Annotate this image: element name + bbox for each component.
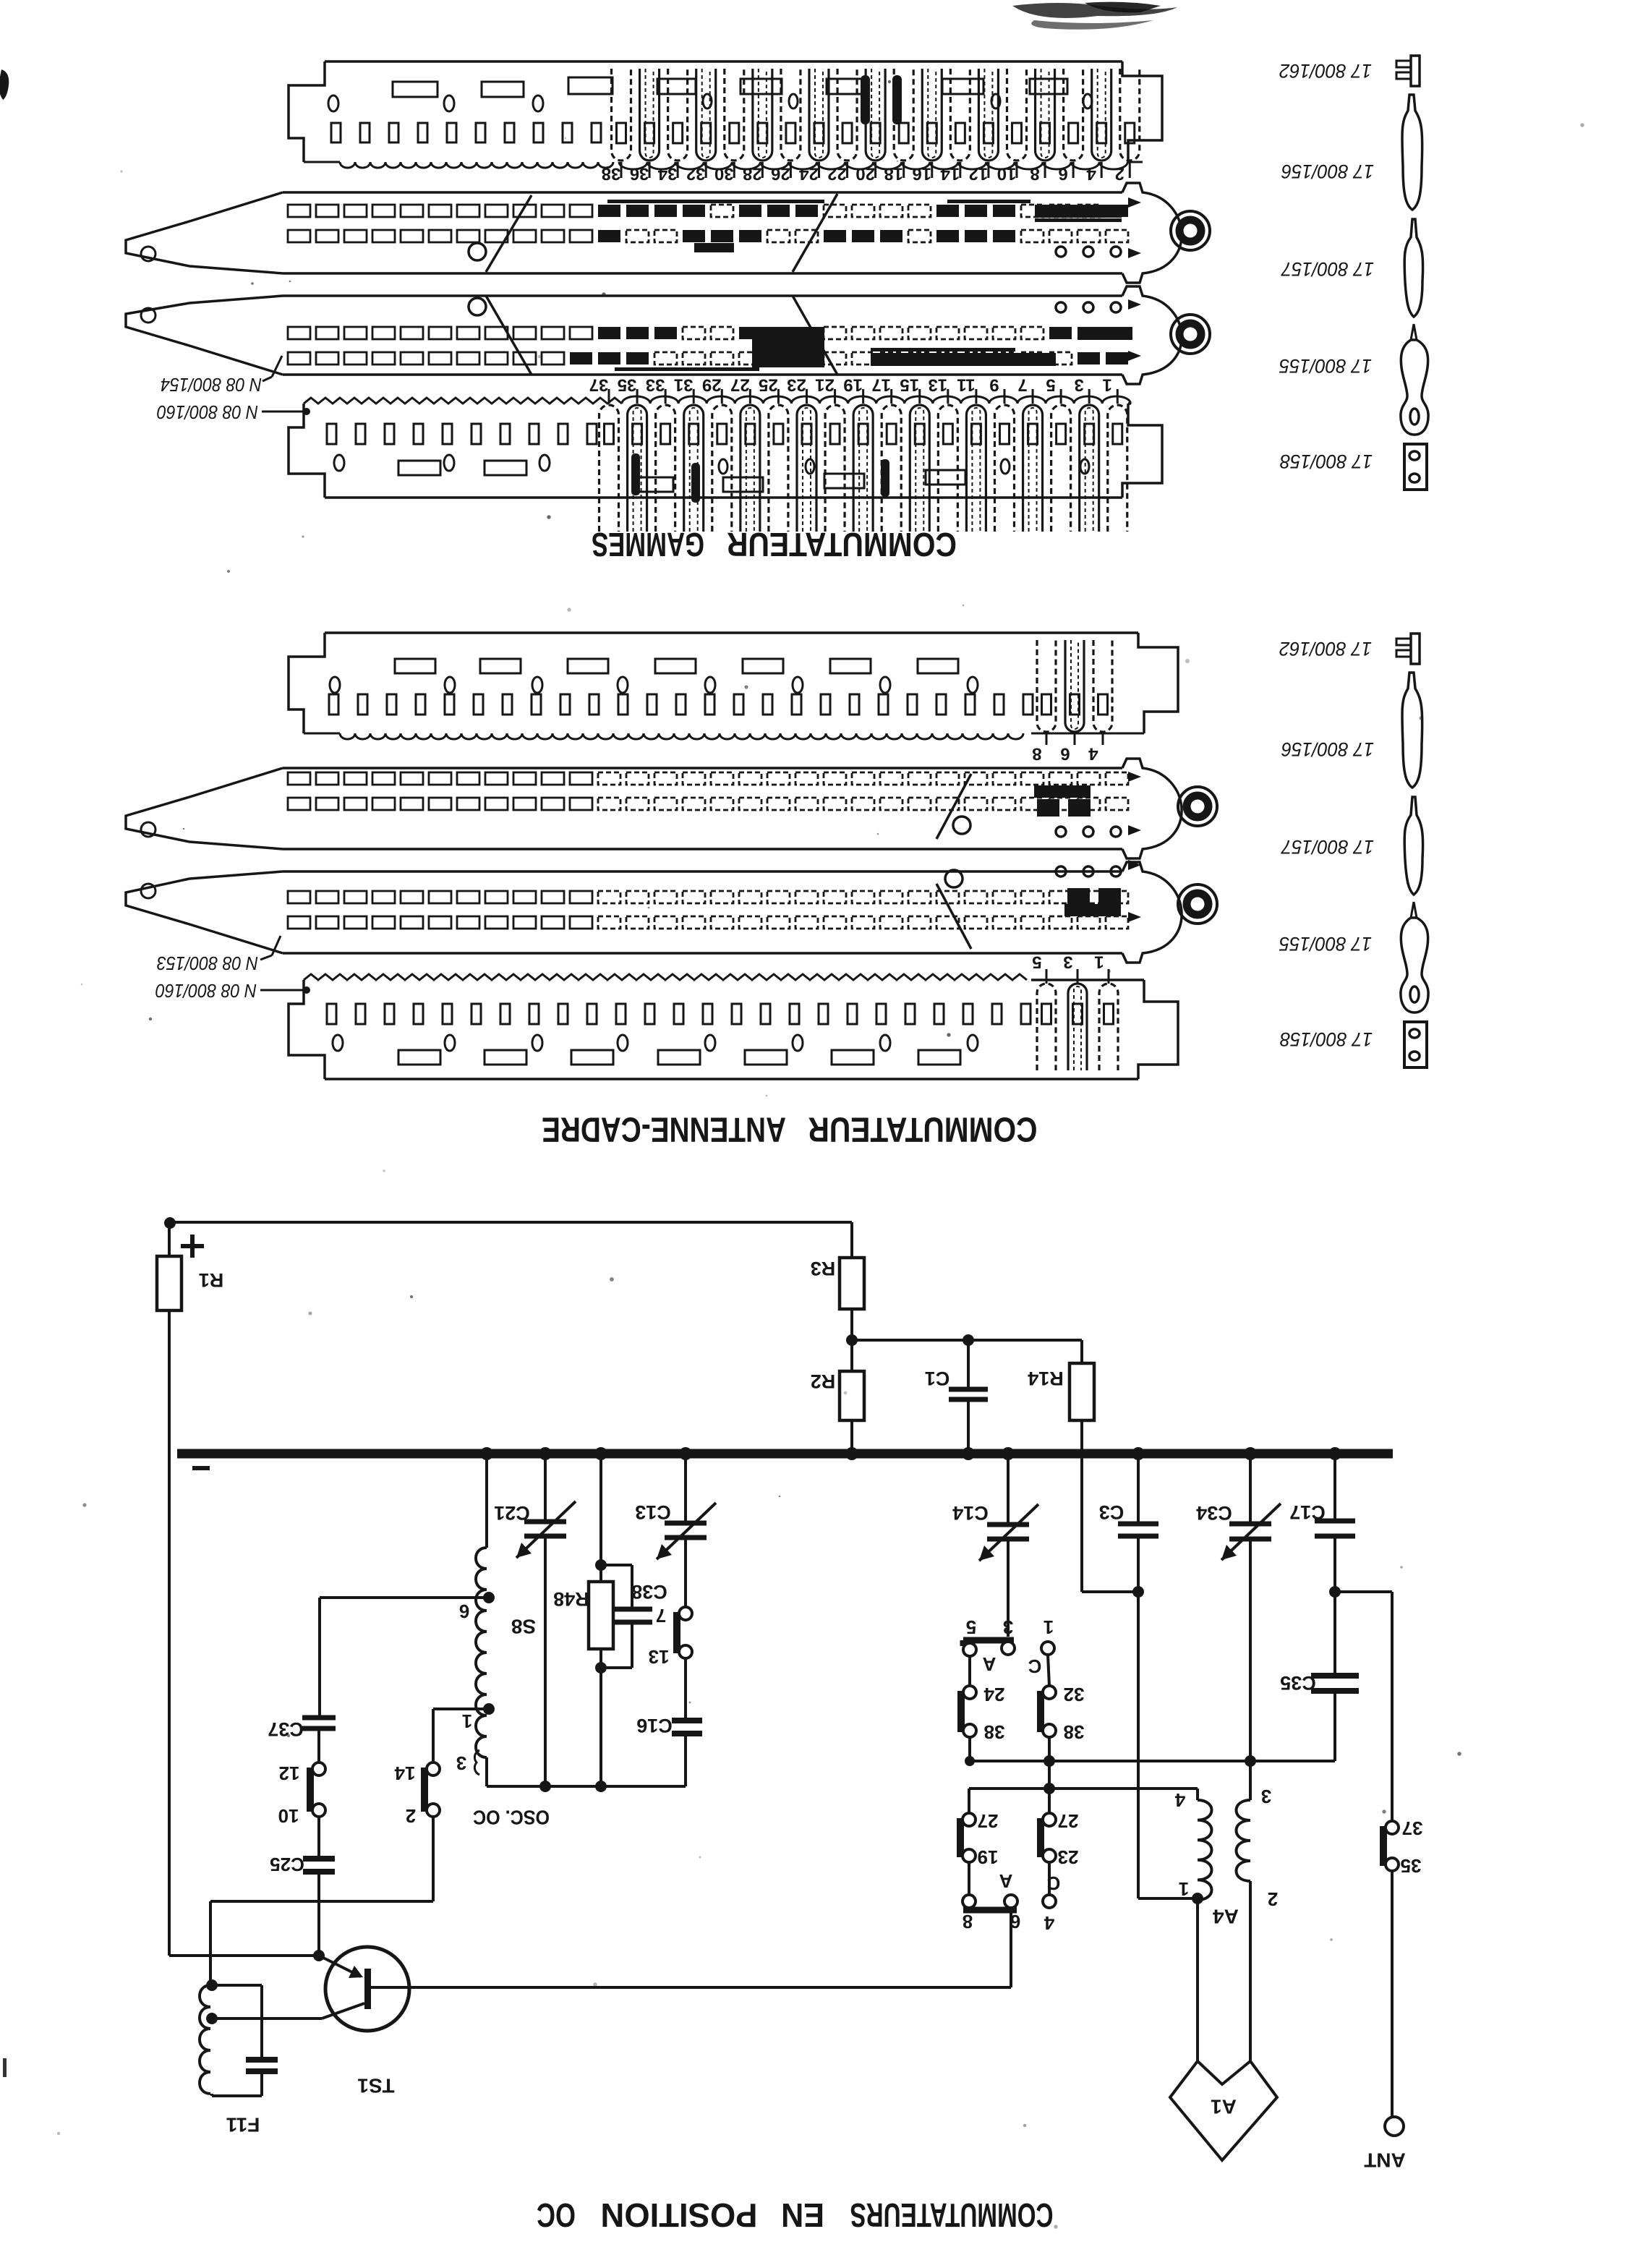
wire 38 contacts to lower rail <box>968 1737 971 1761</box>
svg-text:R1: R1 <box>199 1269 224 1291</box>
coil F11 <box>200 1985 210 2094</box>
svg-text:28: 28 <box>743 164 762 184</box>
antenne-cadre strip D (toothed insulator) <box>304 974 1027 980</box>
svg-text:C: C <box>1028 1655 1041 1677</box>
svg-text:17 800/162: 17 800/162 <box>1279 638 1372 660</box>
svg-text:26: 26 <box>771 164 790 184</box>
svg-text:37: 37 <box>589 375 609 395</box>
part 17 800/156 <box>1402 95 1422 210</box>
resistor R2 <box>840 1371 864 1420</box>
svg-text:27: 27 <box>978 1810 999 1832</box>
svg-text:C35: C35 <box>1280 1672 1316 1694</box>
resistor R14 <box>1080 1340 1083 1363</box>
wire R48 bottom <box>599 1649 602 1786</box>
antenne-cadre strip A (toothed insulator) <box>325 631 1138 634</box>
wire R2 to ground bus <box>850 1420 853 1454</box>
svg-text:37: 37 <box>1402 1817 1423 1839</box>
svg-text:2: 2 <box>1268 1888 1278 1910</box>
svg-text:3: 3 <box>1063 952 1072 972</box>
gammes strip A dark contact pair <box>861 75 870 124</box>
svg-text:4: 4 <box>1044 1912 1054 1934</box>
svg-text:33: 33 <box>646 375 665 395</box>
svg-text:C13: C13 <box>635 1501 671 1523</box>
resistor R3 <box>840 1258 864 1309</box>
svg-text:C21: C21 <box>494 1502 530 1524</box>
capacitor C34 (variable) <box>1249 1454 1252 1522</box>
wire positive top rail <box>169 1221 852 1224</box>
gammes strip A contact fingers with pin numbers 2..38 <box>612 69 631 161</box>
wire C37 to switch 12 <box>317 1728 320 1762</box>
svg-text:38: 38 <box>984 1721 1005 1743</box>
part 17 800/157 <box>1404 219 1422 317</box>
junction C3/R14 <box>1132 1586 1144 1598</box>
capacitor across F11 <box>212 1984 262 1987</box>
switch contact 7-13 <box>673 1612 680 1653</box>
wire R48 branch top <box>599 1454 602 1582</box>
svg-text:3: 3 <box>1003 1616 1013 1638</box>
frame antenna A1 <box>1170 2061 1277 2160</box>
svg-text:14: 14 <box>394 1762 415 1784</box>
svg-text:12: 12 <box>279 1762 300 1784</box>
svg-text:8: 8 <box>1030 164 1039 184</box>
svg-text:14: 14 <box>940 164 960 184</box>
part 17 800/158 <box>1404 1022 1427 1067</box>
part 17 800/157 <box>1404 797 1422 895</box>
svg-text:35: 35 <box>1401 1855 1422 1877</box>
wire C25 down crossing junction <box>317 1872 320 1956</box>
switch contact 12-10 <box>307 1768 314 1812</box>
node - (battery negative) <box>192 1466 210 1470</box>
svg-text:21: 21 <box>815 375 835 395</box>
wire lower rail 1 (to C35/C17 branch) <box>970 1760 1335 1762</box>
switch contact 27-23 bridged <box>1048 1789 1051 1813</box>
junction bottom rail <box>539 1781 551 1792</box>
gammes strip B (contact plate, blackened pattern) <box>126 192 283 273</box>
resistor R1 <box>157 1256 182 1310</box>
svg-text:COMMUTATEURS: COMMUTATEURS <box>850 2196 1054 2234</box>
antenne-cadre strip D contact fingers 1,3,5 <box>1037 984 1056 1070</box>
junction R3/R2 <box>846 1334 858 1346</box>
svg-text:35: 35 <box>618 375 637 395</box>
wire 5 to 24 <box>968 1656 971 1686</box>
part 17 800/162 <box>1411 634 1420 664</box>
svg-text:25: 25 <box>759 375 778 395</box>
svg-text:R3: R3 <box>811 1258 836 1279</box>
svg-text:13: 13 <box>649 1646 670 1668</box>
svg-text:11: 11 <box>957 375 975 395</box>
svg-text:31: 31 <box>674 375 694 395</box>
svg-text:32: 32 <box>686 164 706 184</box>
svg-text:C14: C14 <box>952 1502 989 1524</box>
coil S8 <box>476 1548 487 1757</box>
svg-text:4: 4 <box>1174 1789 1185 1811</box>
svg-text:C16: C16 <box>636 1715 673 1736</box>
scan smudge top <box>1012 2 1177 30</box>
svg-text:2: 2 <box>406 1805 416 1827</box>
svg-text:19: 19 <box>843 375 863 395</box>
svg-text:4: 4 <box>1086 164 1096 184</box>
svg-text:5: 5 <box>1046 375 1055 395</box>
svg-text:1: 1 <box>1103 375 1112 395</box>
svg-text:17 800/156: 17 800/156 <box>1281 738 1374 760</box>
svg-text:3: 3 <box>456 1752 466 1774</box>
svg-text:R48: R48 <box>553 1588 589 1610</box>
svg-text:ANT: ANT <box>1364 2149 1406 2172</box>
svg-text:A: A <box>982 1653 996 1675</box>
svg-text:EN: EN <box>781 2196 824 2234</box>
capacitor C14 (variable) <box>1007 1454 1010 1523</box>
switch contact 32-38 bridged <box>1037 1691 1044 1732</box>
wire R14 down to C3 node (crosses bus) <box>1080 1420 1083 1592</box>
wire 35 to ANT terminal <box>1391 1871 1394 2116</box>
scan mark left edge <box>0 69 9 100</box>
svg-text:34: 34 <box>657 164 677 184</box>
transistor TS1 <box>325 1947 409 2031</box>
wire collector TS1 to contact 6 <box>371 1986 1011 1989</box>
svg-text:F11: F11 <box>226 2114 260 2136</box>
svg-text:C38: C38 <box>631 1581 667 1603</box>
svg-text:27: 27 <box>730 375 750 395</box>
wire mid rail to C1 and R14 <box>852 1339 1082 1342</box>
svg-text:1: 1 <box>1094 952 1104 972</box>
svg-text:4: 4 <box>1088 744 1098 764</box>
svg-text:18: 18 <box>884 164 903 184</box>
capacitor C16 <box>672 1718 702 1723</box>
svg-text:ANTENNE-CADRE: ANTENNE-CADRE <box>542 1110 786 1148</box>
switch contact 24-38 bridged <box>957 1691 965 1732</box>
transformer A4 primary 4-1 <box>1196 1789 1199 1800</box>
svg-text:C3: C3 <box>1099 1501 1125 1523</box>
junction R48 top <box>595 1559 607 1571</box>
svg-text:1: 1 <box>462 1710 472 1732</box>
svg-text:16: 16 <box>912 164 931 184</box>
svg-text:COMMUTATEUR: COMMUTATEUR <box>727 526 957 563</box>
node + (battery positive) <box>181 1244 204 1248</box>
capacitor C21 (variable) <box>544 1454 547 1520</box>
junction S8 tap 6 <box>483 1592 495 1603</box>
svg-text:3: 3 <box>1261 1786 1271 1807</box>
svg-text:5: 5 <box>966 1616 976 1638</box>
svg-text:C25: C25 <box>270 1854 304 1875</box>
capacitor C3 <box>1137 1454 1140 1522</box>
svg-text:29: 29 <box>702 375 722 395</box>
capacitor C38 (parallel R48) <box>601 1564 632 1566</box>
svg-text:17 800/155: 17 800/155 <box>1279 355 1372 377</box>
resistor R48 <box>589 1582 613 1649</box>
wire S8 top <box>485 1454 488 1548</box>
svg-text:20: 20 <box>855 164 875 184</box>
junction emitter node <box>313 1950 325 1961</box>
svg-text:9: 9 <box>989 375 999 395</box>
wire lower rail 2 (to A4 primary) <box>969 1787 1198 1790</box>
wire 10 to C25 <box>317 1817 320 1857</box>
wire S8 bottom to oscillator bottom rail <box>485 1757 488 1786</box>
svg-text:8: 8 <box>963 1911 973 1932</box>
svg-text:1: 1 <box>1044 1616 1054 1638</box>
wire left rail to emitter node <box>169 1954 319 1957</box>
part 17 800/156 <box>1402 673 1422 788</box>
gammes strip C (contact plate, blackened pattern) <box>126 296 283 375</box>
junction F11 base tap <box>206 2013 218 2024</box>
svg-text:A: A <box>999 1870 1012 1892</box>
svg-text:C1: C1 <box>925 1368 950 1389</box>
svg-text:5: 5 <box>1032 952 1041 972</box>
gammes strip A (toothed insulator, contacts 2-38) <box>325 60 1122 63</box>
svg-text:N 08 800/153: N 08 800/153 <box>157 952 258 974</box>
antenne-cadre strip B (contact plate) <box>126 768 283 849</box>
svg-text:POSITION: POSITION <box>601 2196 758 2234</box>
svg-text:17 800/158: 17 800/158 <box>1280 1028 1373 1050</box>
wire 1 to 32 <box>1048 1655 1049 1686</box>
svg-text:19: 19 <box>978 1846 999 1868</box>
svg-text:7: 7 <box>656 1605 666 1627</box>
capacitor C37 <box>302 1715 336 1721</box>
svg-text:A1: A1 <box>1211 2096 1237 2118</box>
svg-text:17 800/162: 17 800/162 <box>1279 60 1372 82</box>
svg-text:GAMMES: GAMMES <box>592 526 704 563</box>
wire tap6 to C37 <box>320 1596 489 1599</box>
svg-text:6: 6 <box>459 1600 469 1622</box>
part 17 800/162 <box>1411 56 1420 86</box>
svg-text:17 800/156: 17 800/156 <box>1281 161 1374 182</box>
svg-text:17 800/157: 17 800/157 <box>1281 836 1374 858</box>
wire 13 to C16 <box>684 1658 687 1718</box>
switch contact 5-3 bridged <box>963 1637 1014 1644</box>
svg-text:10: 10 <box>278 1805 299 1827</box>
svg-text:7: 7 <box>1017 375 1027 395</box>
junction S8 tap 1 <box>483 1703 495 1715</box>
bus junctions <box>480 1447 493 1460</box>
svg-text:24: 24 <box>983 1684 1004 1705</box>
svg-text:17 800/157: 17 800/157 <box>1281 258 1374 280</box>
wire tap1 to switch 14 <box>433 1708 489 1710</box>
part 17 800/155 <box>1411 902 1414 918</box>
capacitor C13 (variable) <box>684 1454 687 1522</box>
junction F11 top <box>206 1979 218 1991</box>
svg-text:A4: A4 <box>1213 1906 1239 1928</box>
svg-text:30: 30 <box>714 164 734 184</box>
svg-text:38: 38 <box>602 164 621 184</box>
svg-text:OSC. OC: OSC. OC <box>473 1807 550 1829</box>
junction top-left <box>164 1217 176 1229</box>
svg-text:36: 36 <box>630 164 649 184</box>
svg-text:23: 23 <box>787 375 806 395</box>
switch contact 14-2 <box>421 1768 428 1812</box>
scan speckles <box>538 355 542 359</box>
svg-text:17 800/155: 17 800/155 <box>1279 933 1372 955</box>
terminal ANT <box>1385 2117 1404 2136</box>
svg-text:13: 13 <box>928 375 947 395</box>
svg-text:23: 23 <box>1058 1846 1079 1868</box>
capacitor C35 <box>1333 1592 1336 1673</box>
svg-text:OC: OC <box>537 2196 576 2234</box>
svg-text:32: 32 <box>1064 1684 1085 1705</box>
svg-text:S8: S8 <box>511 1616 536 1638</box>
contact 1 (open) <box>1041 1642 1054 1655</box>
junction C1 top <box>963 1334 974 1346</box>
wire C3 to A4 pin1 <box>1138 1897 1198 1900</box>
svg-text:17 800/158: 17 800/158 <box>1280 451 1373 472</box>
transformer A4 secondary 3-2 <box>1249 1761 1252 1800</box>
svg-text:1: 1 <box>1179 1878 1189 1900</box>
svg-text:TS1: TS1 <box>357 2075 394 2097</box>
junction C17/C35 <box>1329 1586 1341 1598</box>
switch contact 37-35 <box>1380 1826 1387 1866</box>
wire 19 to contact 8 <box>968 1862 970 1895</box>
svg-text:6: 6 <box>1058 164 1067 184</box>
svg-text:22: 22 <box>827 164 847 184</box>
svg-text:COMMUTATEUR: COMMUTATEUR <box>808 1110 1038 1148</box>
switch contact 27-19 bridged <box>957 1818 964 1857</box>
ground bus (negative rail) <box>177 1449 1393 1459</box>
capacitor C1 <box>967 1340 970 1388</box>
scan mark left edge low <box>3 2058 7 2077</box>
wire 23 to contact 4 (C) <box>1048 1862 1051 1895</box>
svg-text:C34: C34 <box>1196 1502 1232 1524</box>
junction R48 bottom <box>595 1662 607 1674</box>
wire switch2 to emitter line <box>432 1817 435 1901</box>
svg-text:24: 24 <box>798 164 818 184</box>
svg-text:17: 17 <box>871 375 891 395</box>
switch contact 8-6 bridged (A) <box>963 1895 976 1908</box>
svg-text:3: 3 <box>1075 375 1084 395</box>
wire C17 node to switch 37 <box>1335 1590 1392 1593</box>
svg-text:N 08 800/154: N 08 800/154 <box>161 374 262 396</box>
svg-text:12: 12 <box>969 164 989 184</box>
svg-text:R14: R14 <box>1028 1368 1064 1389</box>
gammes strip D dark hooks <box>631 453 640 495</box>
wires to frame antenna <box>1196 1900 1199 2061</box>
capacitor C17 <box>1333 1454 1336 1519</box>
svg-text:6: 6 <box>1060 744 1070 764</box>
svg-text:15: 15 <box>900 375 919 395</box>
svg-text:8: 8 <box>1032 744 1041 764</box>
svg-text:10: 10 <box>997 164 1017 184</box>
svg-text:N 08 800/160: N 08 800/160 <box>157 401 258 423</box>
svg-text:C: C <box>1046 1872 1060 1894</box>
svg-text:R2: R2 <box>811 1370 836 1392</box>
gammes strip D (toothed insulator, contacts 1-37) <box>304 398 622 404</box>
wire left rail (R1 branch) <box>168 1222 171 1256</box>
capacitor C25 <box>303 1856 335 1862</box>
wire R3 branch <box>850 1222 853 1258</box>
svg-text:C37: C37 <box>268 1718 304 1740</box>
part 17 800/158 <box>1404 444 1427 490</box>
gammes strip D contact fingers with pin numbers 1-37 <box>599 405 619 532</box>
part 17 800/155 <box>1411 324 1414 340</box>
svg-text:C17: C17 <box>1289 1501 1326 1523</box>
wire down to F11 <box>209 1901 212 1985</box>
svg-text:2: 2 <box>1115 164 1125 184</box>
svg-text:6: 6 <box>1010 1911 1020 1932</box>
svg-text:N 08 800/160: N 08 800/160 <box>155 980 257 1002</box>
antenne-cadre strip A contact fingers 4,6,8 <box>1037 640 1056 732</box>
svg-text:27: 27 <box>1058 1810 1079 1832</box>
svg-text:38: 38 <box>1064 1721 1085 1743</box>
antenne-cadre strip C (contact plate) <box>126 871 283 953</box>
